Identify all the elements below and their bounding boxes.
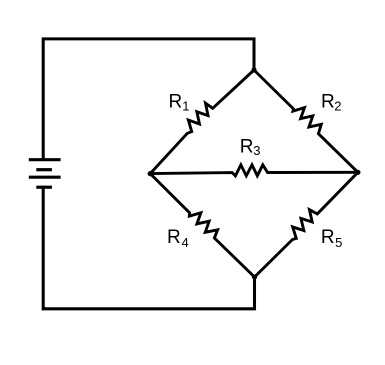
svg-text:R: R bbox=[167, 227, 181, 248]
wire battery negative terminal down and across bottom to bottom node bbox=[43, 187, 254, 309]
junction node right bbox=[355, 170, 360, 175]
junction node top bbox=[251, 67, 256, 72]
battery long plate bbox=[29, 176, 61, 179]
svg-text:4: 4 bbox=[182, 235, 189, 250]
wire battery positive terminal up and across top to top node bbox=[43, 39, 254, 160]
label R5 bbox=[321, 227, 342, 250]
svg-text:R: R bbox=[169, 92, 183, 113]
label R4 bbox=[167, 227, 189, 250]
svg-text:1: 1 bbox=[182, 98, 189, 113]
junction node bottom bbox=[252, 274, 257, 279]
svg-text:R: R bbox=[240, 137, 254, 158]
battery short plate bbox=[36, 168, 52, 171]
resistor R4 bbox=[150, 174, 254, 277]
label R2 bbox=[321, 92, 342, 114]
battery long plate (top) bbox=[29, 158, 61, 161]
svg-text:R: R bbox=[321, 227, 335, 248]
resistor R3 bbox=[150, 165, 358, 176]
label R3 bbox=[240, 137, 261, 159]
svg-text:5: 5 bbox=[335, 235, 342, 250]
battery short plate (bottom) bbox=[36, 186, 52, 189]
svg-text:R: R bbox=[321, 92, 335, 113]
junction node left bbox=[148, 171, 153, 176]
label R1 bbox=[169, 92, 190, 114]
svg-text:3: 3 bbox=[253, 143, 260, 158]
resistor R1 bbox=[150, 70, 254, 174]
svg-text:2: 2 bbox=[334, 99, 341, 114]
resistor R5 bbox=[255, 172, 358, 277]
resistor R2 bbox=[254, 70, 358, 172]
